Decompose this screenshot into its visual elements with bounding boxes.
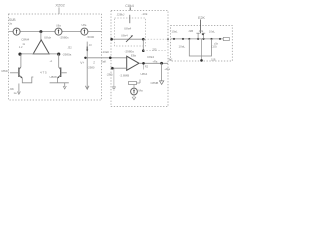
svg-text:+Da: +Da [164,67,170,71]
svg-text:C8k4: C8k4 [147,55,154,59]
svg-text:U8dz: U8dz [44,36,52,40]
svg-text:U8a4: U8a4 [124,27,132,31]
svg-text:U808: U808 [50,75,58,79]
svg-text:J35: J35 [152,48,157,52]
svg-text:C8M4: C8M4 [21,37,29,41]
svg-text:J28kJ: J28kJ [117,12,125,16]
svg-text:X202: X202 [55,3,65,8]
svg-text:(298): (298) [107,74,113,77]
svg-text:-2980: -2980 [87,66,95,70]
svg-text:V+: V+ [80,61,84,65]
svg-text:E8a: E8a [131,53,136,57]
svg-text:C8k4: C8k4 [125,4,133,8]
svg-text:C8MB: C8MB [151,81,159,85]
svg-text:10B: 10B [211,58,216,61]
svg-text:Z: Z [93,61,95,65]
svg-text:(10): (10) [211,44,216,48]
svg-text:-2980a: -2980a [62,53,72,57]
svg-text:1.2: 1.2 [19,45,23,49]
svg-text:Ja: Ja [9,22,12,26]
svg-text:-2980s: -2980s [60,36,70,40]
svg-text:U8b4: U8b4 [141,72,148,76]
svg-text:MMC: MMC [2,69,10,73]
svg-text:3k2: 3k2 [168,58,173,62]
svg-text:4 T 5: 4 T 5 [40,71,47,75]
svg-text:Ma: Ma [139,89,143,93]
svg-text:U8a: U8a [56,24,61,28]
svg-text:J2B: J2B [188,29,193,33]
svg-text:J32: J32 [68,45,73,49]
svg-text:10aL: 10aL [171,29,178,33]
svg-text:10aL: 10aL [209,29,216,33]
svg-text:R2: R2 [145,65,149,69]
svg-text:U8a: U8a [82,23,87,27]
svg-text:10aL: 10aL [179,44,186,48]
svg-text:E2K: E2K [198,16,205,20]
svg-text:-2.8MB: -2.8MB [120,73,130,77]
svg-text:-10k: -10k [142,12,148,16]
svg-text:1a: 1a [14,91,18,95]
svg-text:+10aK: +10aK [101,50,109,54]
svg-text:-5000: -5000 [87,35,95,39]
svg-text:J2a: J2a [199,29,204,33]
svg-text:2aK: 2aK [101,60,106,64]
svg-text:+Ra: +Ra [153,59,158,63]
svg-text:U8e4: U8e4 [121,34,128,38]
